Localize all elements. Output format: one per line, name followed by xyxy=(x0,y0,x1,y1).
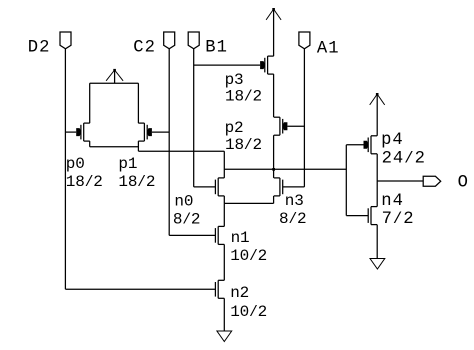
input terminal D2 xyxy=(60,32,71,49)
wire n0 drain up xyxy=(223,151,225,178)
wire n1 source to n2 drain xyxy=(223,244,225,280)
wire internal node rail xyxy=(224,168,346,170)
output terminal O xyxy=(423,176,441,186)
svg-text:p3: p3 xyxy=(225,71,244,89)
svg-text:C2: C2 xyxy=(133,39,156,58)
wire A1 vertical xyxy=(303,49,305,187)
svg-text:8/2: 8/2 xyxy=(279,210,306,228)
junction dot node xyxy=(272,168,275,171)
input terminal A1 xyxy=(299,32,310,49)
power symbol VDD2 xyxy=(266,8,281,56)
svg-text:p4: p4 xyxy=(381,131,404,150)
svg-text:7/2: 7/2 xyxy=(382,210,415,229)
wire output to n4 drain xyxy=(376,181,378,207)
wire B1 to n0 gate xyxy=(194,186,216,188)
ground GND2 xyxy=(370,259,385,270)
wire C2 vertical xyxy=(168,49,170,236)
ground GND1 xyxy=(217,331,232,342)
wire C2 to p1 gate xyxy=(152,131,169,133)
wire rail to n1 drain xyxy=(223,203,225,226)
transistor n4 xyxy=(368,207,377,225)
transistor p0 xyxy=(76,123,90,141)
transistor p2 xyxy=(274,117,288,135)
svg-text:10/2: 10/2 xyxy=(230,303,267,321)
wire A1 to n3 gate xyxy=(283,186,305,188)
svg-text:10/2: 10/2 xyxy=(230,247,267,265)
wire C2 to n1 gate xyxy=(169,234,215,236)
wire p3 drain to p2 source xyxy=(273,74,275,117)
wire n0 n3 source rail xyxy=(224,202,273,204)
wire pair drains to n0 drain xyxy=(138,150,224,152)
svg-text:24/2: 24/2 xyxy=(382,149,426,168)
svg-text:n3: n3 xyxy=(285,192,304,210)
svg-text:n1: n1 xyxy=(231,229,250,247)
transistor n1 xyxy=(215,226,224,244)
wire B1 to p3 gate xyxy=(194,64,260,66)
svg-text:18/2: 18/2 xyxy=(118,173,155,191)
svg-text:A1: A1 xyxy=(317,40,340,59)
transistor n3 xyxy=(274,178,283,196)
transistor n2 xyxy=(215,280,224,298)
svg-text:n2: n2 xyxy=(230,284,249,302)
transistor p3 xyxy=(260,56,274,74)
svg-text:n0: n0 xyxy=(174,193,193,211)
input terminal C2 xyxy=(164,32,175,49)
wire p0 p1 drain rail xyxy=(90,146,139,148)
wire D2 vertical xyxy=(64,49,66,289)
wire to p4 gate xyxy=(346,144,363,146)
wire p2 drain to node xyxy=(273,135,275,169)
svg-text:p1: p1 xyxy=(118,155,137,173)
wire p1 drain jog xyxy=(137,141,139,151)
transistor n0 xyxy=(215,178,224,196)
svg-text:18/2: 18/2 xyxy=(66,173,103,191)
svg-text:p0: p0 xyxy=(66,155,85,173)
svg-text:p2: p2 xyxy=(225,119,244,137)
wire n4 source to ground xyxy=(376,225,378,259)
wire n2 source to ground xyxy=(223,298,225,331)
wire n3 source down xyxy=(273,196,275,204)
svg-text:18/2: 18/2 xyxy=(225,136,262,154)
wire p4 drain to output xyxy=(376,154,378,181)
svg-text:n4: n4 xyxy=(381,192,404,211)
svg-text:O: O xyxy=(458,174,469,193)
wire n0 source down xyxy=(223,196,225,204)
power symbol VDD3 xyxy=(370,93,385,136)
wire D2 to n2 gate xyxy=(65,288,215,290)
input terminal B1 xyxy=(188,32,199,49)
svg-text:D2: D2 xyxy=(28,39,51,58)
wire p1 source up xyxy=(137,83,139,123)
wire inverter input vertical xyxy=(345,145,347,216)
wire to n4 gate xyxy=(346,215,368,217)
wire D2 to p0 gate xyxy=(65,131,76,133)
wire p0 drain down xyxy=(89,141,91,147)
wire output rail xyxy=(377,180,423,182)
svg-text:B1: B1 xyxy=(205,38,228,57)
wire A1 to p2 gate xyxy=(287,125,304,127)
wire p0 source up xyxy=(89,83,91,123)
power symbol VDD1 xyxy=(106,69,123,83)
transistor p1 xyxy=(138,123,152,141)
svg-text:8/2: 8/2 xyxy=(173,210,200,228)
transistor p4 xyxy=(364,136,378,154)
wire n3 drain up xyxy=(273,169,275,178)
wire VDD rail p0 p1 xyxy=(90,82,139,84)
svg-text:18/2: 18/2 xyxy=(225,88,262,106)
wire B1 vertical xyxy=(193,49,195,187)
